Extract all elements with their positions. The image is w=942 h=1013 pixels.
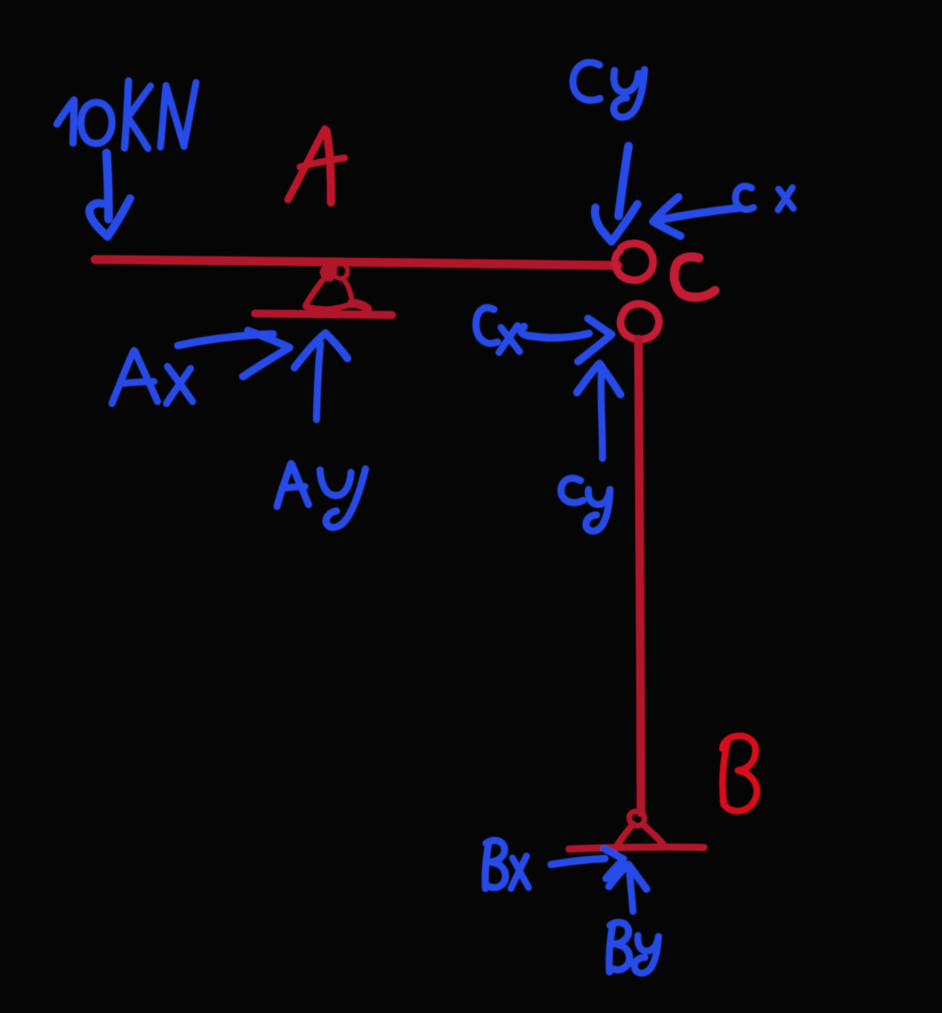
support B base line <box>569 847 704 849</box>
label Bx : letter x <box>513 858 529 888</box>
support B apex loop <box>629 811 644 825</box>
support B triangle right side <box>643 825 663 845</box>
load force arrow (down) shaft <box>107 153 109 219</box>
column BC (vertical member) <box>639 339 642 813</box>
arrow Cx shaft <box>656 208 739 221</box>
pin circle at C lower (on column) <box>621 304 659 340</box>
red structure <box>95 244 715 849</box>
force arrow Cx lower (right) shaft <box>521 327 589 338</box>
label Ay : letter y <box>320 470 351 496</box>
label Cx lower : letter C <box>476 308 498 344</box>
pin support A blob <box>320 264 338 283</box>
force arrow Ay (up) chevron <box>295 333 348 368</box>
support A bottom edge <box>306 305 352 310</box>
force arrow Ax (right) shaft <box>178 334 273 346</box>
label Bx : letter B <box>485 842 489 889</box>
support B triangle left side <box>617 824 634 847</box>
label C (red letter) <box>674 257 715 297</box>
arrow By shaft <box>630 871 634 912</box>
label By : letter y <box>638 936 659 952</box>
label Cy : letter y <box>614 71 639 93</box>
label Cx lower : letter x <box>501 328 520 352</box>
blue annotations <box>57 62 794 973</box>
label Ay : letter A <box>277 464 291 507</box>
beam AC (horizontal member) <box>95 260 618 266</box>
red letter A (node A label) <box>288 129 345 203</box>
support A flourish <box>352 303 368 309</box>
support A base line <box>255 314 392 316</box>
support A right side <box>344 280 352 299</box>
force arrow By (up) chevron <box>609 865 647 890</box>
label Cx top : letter x <box>779 189 794 209</box>
label Ax : letter A <box>112 351 134 404</box>
force arrow Cy (down) shaft <box>619 146 629 216</box>
load arrow head <box>89 203 107 236</box>
force arrow cy (up) chevron <box>577 364 621 395</box>
pin circle at C upper (on beam) <box>615 244 653 281</box>
arrow head Bx <box>604 849 624 879</box>
arrow cy shaft <box>601 369 602 459</box>
arrow head Ax <box>243 331 290 377</box>
red letter B (node B label) <box>723 736 758 811</box>
arrow head Cx lower <box>578 319 612 362</box>
load label 10KN : digit 1 <box>57 100 74 143</box>
digit 0 <box>81 103 112 144</box>
label cy : letter c <box>561 478 583 502</box>
label By : letter B <box>609 924 613 973</box>
support A left side <box>306 281 323 306</box>
force arrow Cx (left) chevron <box>653 197 681 236</box>
letter N <box>161 83 197 148</box>
label Cx top : letter c <box>736 186 754 209</box>
force arrow Bx (right) shaft <box>551 859 605 865</box>
arrow head Cy <box>595 208 611 242</box>
arrow Ay shaft <box>317 344 321 420</box>
label Cy : letter C <box>573 62 600 100</box>
label cy : letter y <box>588 490 610 505</box>
label Ax : letter x <box>168 367 193 402</box>
letter K <box>125 81 129 148</box>
support A loop <box>335 264 348 279</box>
